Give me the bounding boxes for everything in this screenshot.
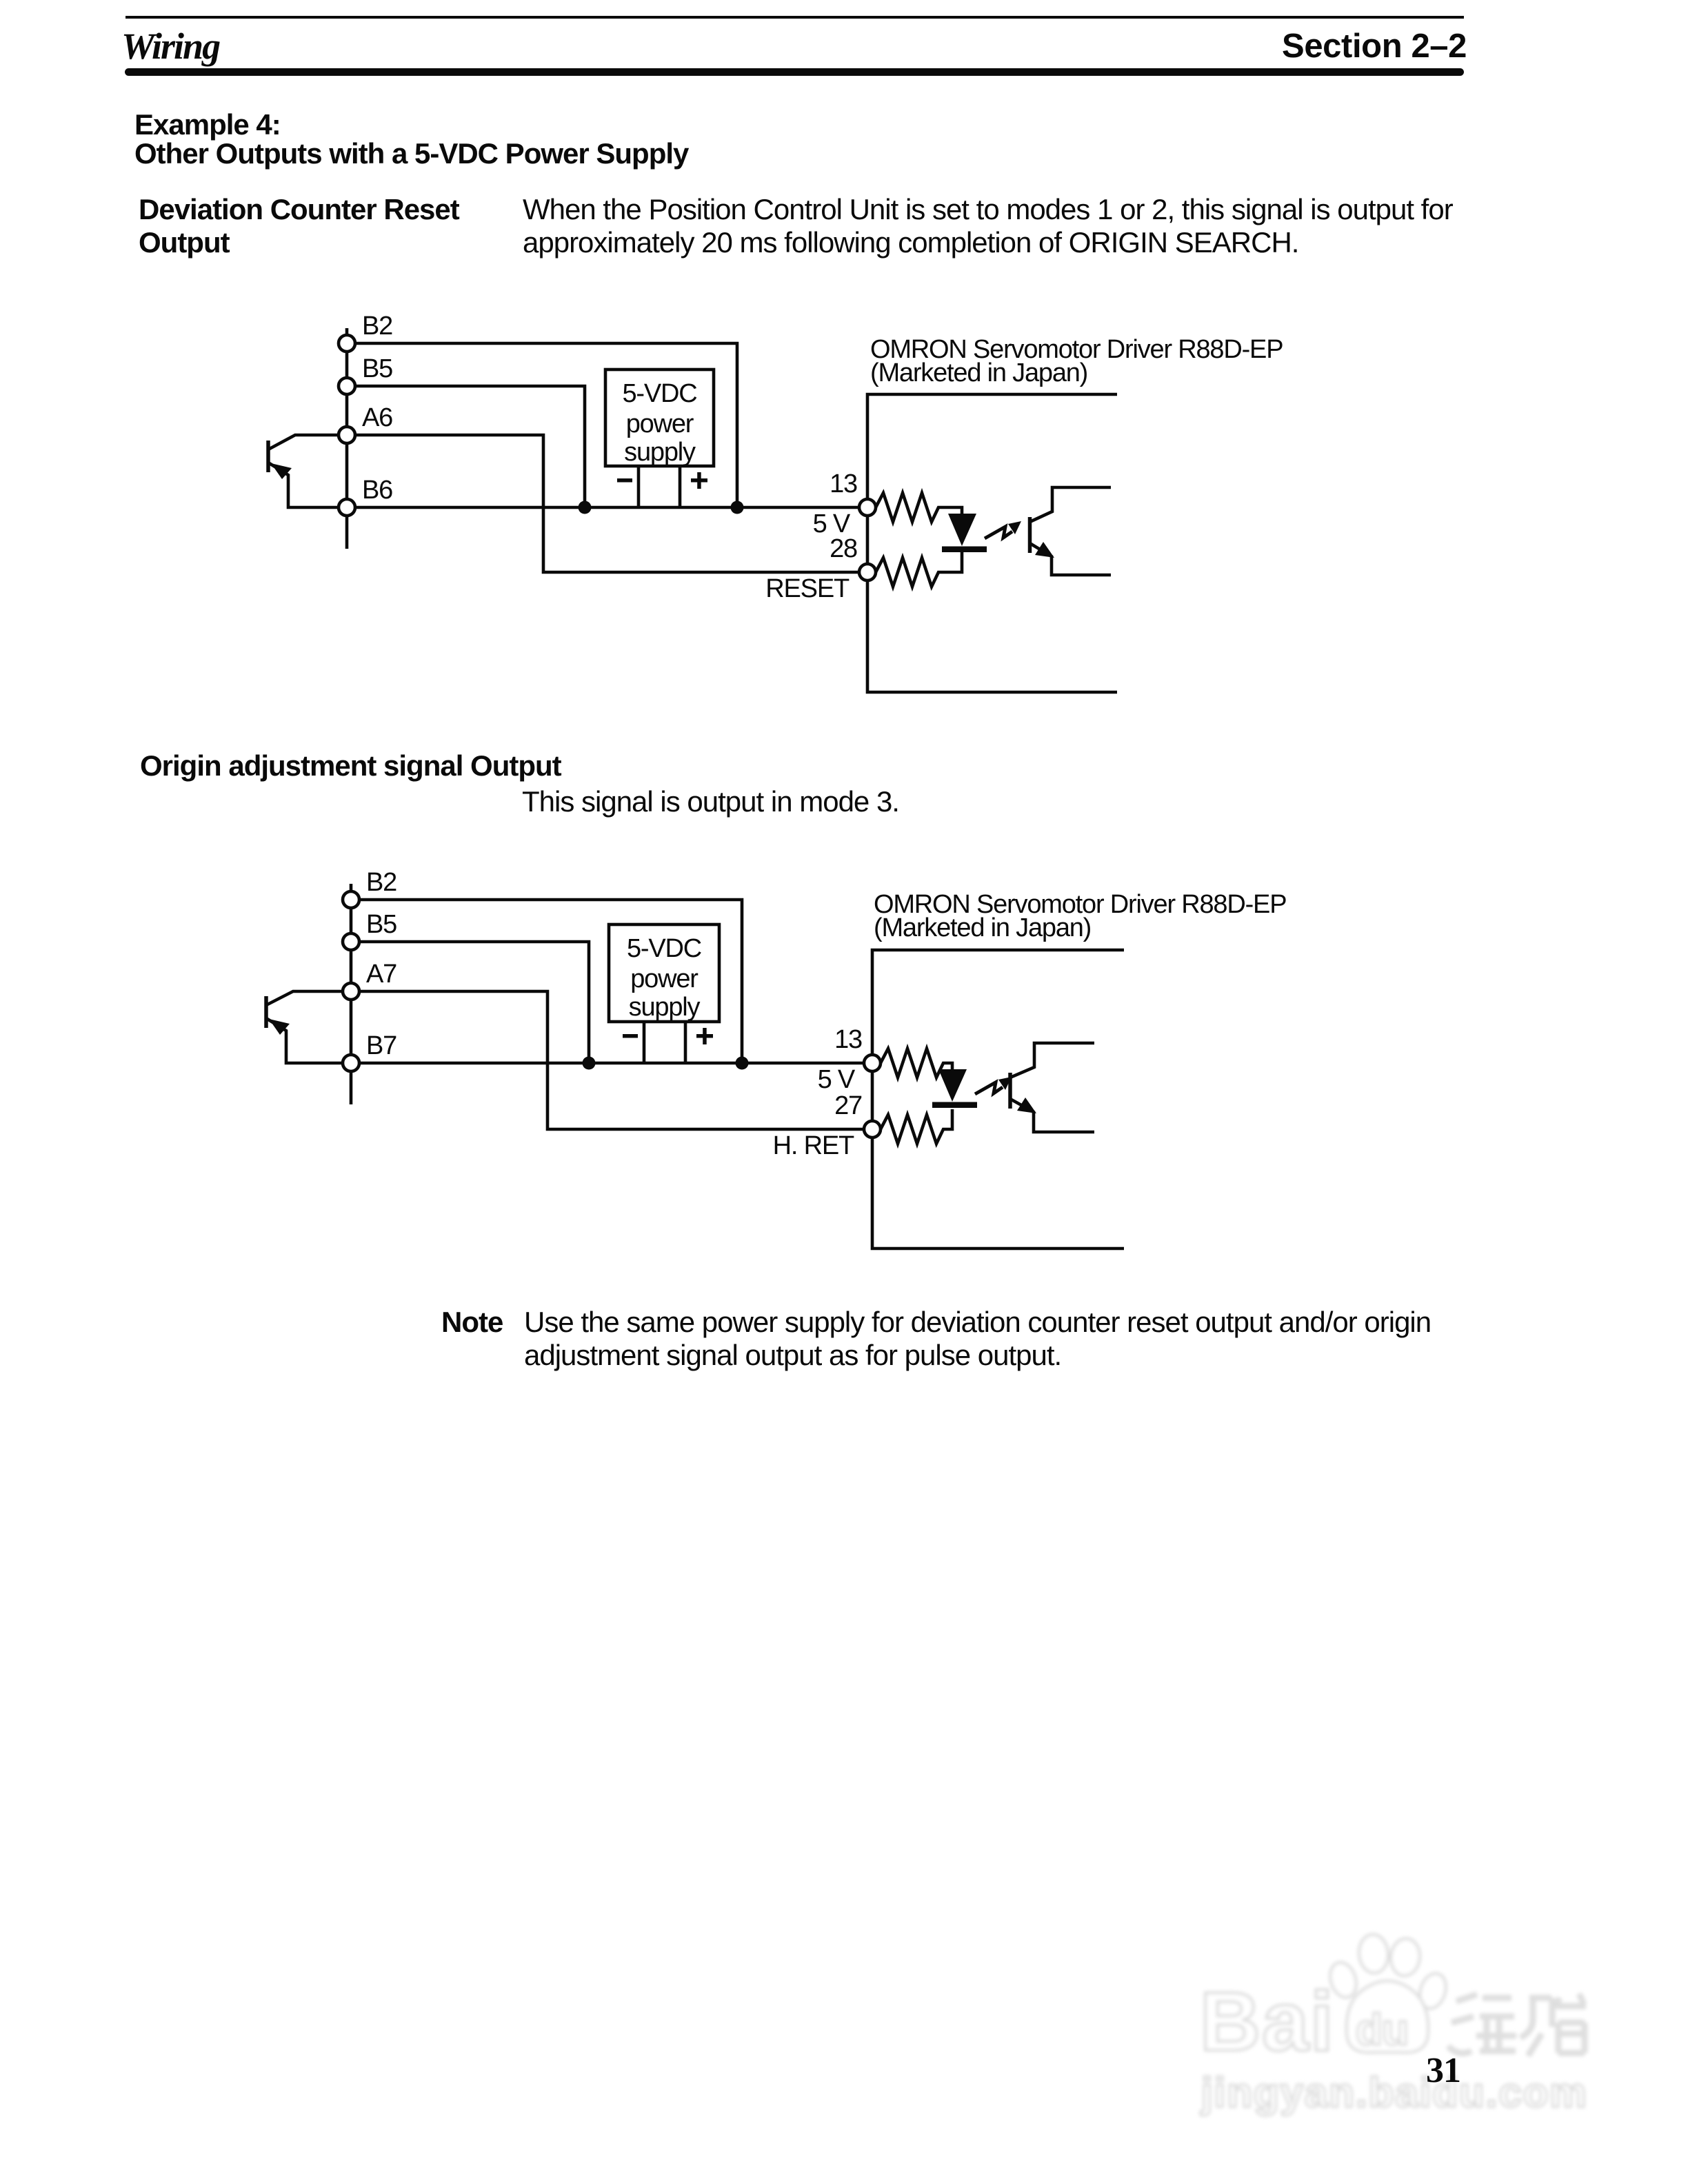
resistor R2b (return side): [881, 1109, 952, 1144]
svg-text:27: 27: [834, 1091, 862, 1120]
paragraph: deviation counter reset description: [523, 193, 1453, 259]
resistor R1a (pin 13 side): [876, 493, 962, 522]
wire: B2 to + junction 1: [347, 343, 737, 507]
junction dot (B2/+ node) 1: [731, 501, 744, 514]
svg-text:28: 28: [830, 534, 857, 563]
wire: power supply + lead 2: [684, 1022, 687, 1063]
heading: Example 4: [134, 110, 688, 168]
junction dot (B5/- node) 1: [579, 501, 592, 514]
pin 28 terminal 1: [859, 564, 876, 580]
wire: power supply + lead 1: [679, 466, 682, 507]
terminal B5 1: [339, 378, 355, 394]
svg-text:B2: B2: [362, 312, 392, 341]
wire: A-terminal to pin 27 2: [351, 991, 864, 1129]
servo driver enclosure bracket 2: [872, 950, 1124, 1248]
label: plus polarity 2: [696, 1028, 713, 1044]
svg-text:B5: B5: [362, 354, 392, 383]
svg-text:H. RET: H. RET: [773, 1131, 854, 1160]
terminal B7 2: [343, 1055, 359, 1071]
junction dot (B2/+ node) 2: [736, 1057, 749, 1070]
svg-text:supply: supply: [624, 438, 696, 467]
wire: B5 to - junction 1: [347, 386, 585, 507]
wire: A-terminal to pin 28 1: [347, 435, 859, 572]
svg-text:A7: A7: [366, 960, 396, 989]
wire: B-terminal supply bus to pin 13 1: [347, 506, 859, 509]
svg-text:13: 13: [834, 1025, 862, 1054]
transistor Q1 (PNP output, base bar / collector / emitter): [268, 435, 339, 507]
svg-text:B5: B5: [366, 910, 396, 939]
light arrow (opto coupling) 1: [985, 521, 1021, 538]
side heading: Deviation Counter Reset Output: [139, 193, 459, 259]
note label: [441, 1306, 503, 1339]
power supply PS2 (5-VDC power supply box): [609, 924, 719, 1022]
terminal B6 1: [339, 499, 355, 516]
wire: power supply - lead 2: [643, 1022, 646, 1063]
LED D2 (optocoupler emitter diode): [932, 1069, 977, 1108]
wire: B5 to - junction 2: [351, 942, 589, 1063]
paragraph: mode 3: [522, 785, 899, 818]
light arrow (opto coupling) 2: [975, 1077, 1012, 1094]
watermark: Baidu Jingyan logo (faint): [1200, 1933, 1588, 2116]
header thin rule: [125, 16, 1464, 19]
wire: power supply - lead 1: [637, 466, 641, 507]
resistor R2a (pin 13 side): [881, 1049, 952, 1078]
phototransistor Q2p (optocoupler output): [1010, 1043, 1094, 1132]
svg-text:(Marketed in Japan): (Marketed in Japan): [870, 358, 1087, 387]
svg-text:5 V: 5 V: [818, 1065, 856, 1094]
heading: Origin adjustment signal Output: [140, 749, 561, 782]
svg-text:power: power: [626, 410, 694, 438]
pin 13 terminal 1: [859, 499, 876, 516]
wire: B2 to + junction 2: [351, 900, 742, 1063]
svg-text:5-VDC: 5-VDC: [627, 934, 701, 963]
svg-text:(Marketed in Japan): (Marketed in Japan): [874, 913, 1091, 942]
page number 31: [1426, 2053, 1460, 2089]
svg-text:du: du: [1356, 2005, 1408, 2054]
svg-text:RESET: RESET: [765, 574, 850, 603]
svg-text:supply: supply: [629, 993, 701, 1022]
note paragraph: [524, 1306, 1431, 1372]
wire: terminal bus vertical 1: [345, 328, 349, 549]
servo driver enclosure bracket 1: [867, 394, 1117, 692]
resistor R1b (return side): [876, 552, 962, 587]
svg-text:B7: B7: [366, 1031, 396, 1060]
label: OMRON Servomotor Driver R88D-EP 2: [874, 890, 1286, 942]
svg-text:Bai: Bai: [1200, 1974, 1335, 2068]
terminal B2 2: [343, 891, 359, 908]
running header: Section 2-2: [1282, 30, 1467, 63]
transistor Q2 (PNP output, base bar / collector / emitter): [266, 991, 343, 1063]
svg-text:jingyan.baidu.com: jingyan.baidu.com: [1200, 2070, 1588, 2116]
terminal A7 2: [343, 983, 359, 1000]
power supply PS1 (5-VDC power supply box): [605, 370, 714, 467]
label: minus polarity 1: [617, 478, 632, 483]
label: OMRON Servomotor Driver R88D-EP 1: [870, 335, 1283, 387]
label: minus polarity 2: [623, 1034, 638, 1038]
svg-text:5-VDC: 5-VDC: [622, 379, 696, 408]
wire: B-terminal supply bus to pin 13 2: [351, 1062, 864, 1065]
phototransistor Q1p (optocoupler output): [1030, 487, 1112, 575]
LED D1 (optocoupler emitter diode): [942, 514, 987, 552]
terminal A6 1: [339, 427, 355, 443]
header thick rule: [125, 68, 1464, 76]
svg-text:A6: A6: [362, 403, 392, 432]
svg-text:13: 13: [830, 469, 857, 498]
pin 27 terminal 2: [864, 1121, 881, 1137]
terminal B2 1: [339, 335, 355, 352]
junction dot (B5/- node) 2: [583, 1057, 596, 1070]
svg-text:B2: B2: [366, 868, 396, 897]
svg-text:power: power: [630, 964, 699, 993]
pin 13 terminal 2: [864, 1055, 881, 1071]
svg-text:B6: B6: [362, 476, 392, 505]
running header: Wiring: [121, 28, 219, 65]
label: plus polarity 1: [691, 472, 707, 489]
wire: terminal bus vertical 2: [350, 884, 353, 1104]
terminal B5 2: [343, 933, 359, 950]
